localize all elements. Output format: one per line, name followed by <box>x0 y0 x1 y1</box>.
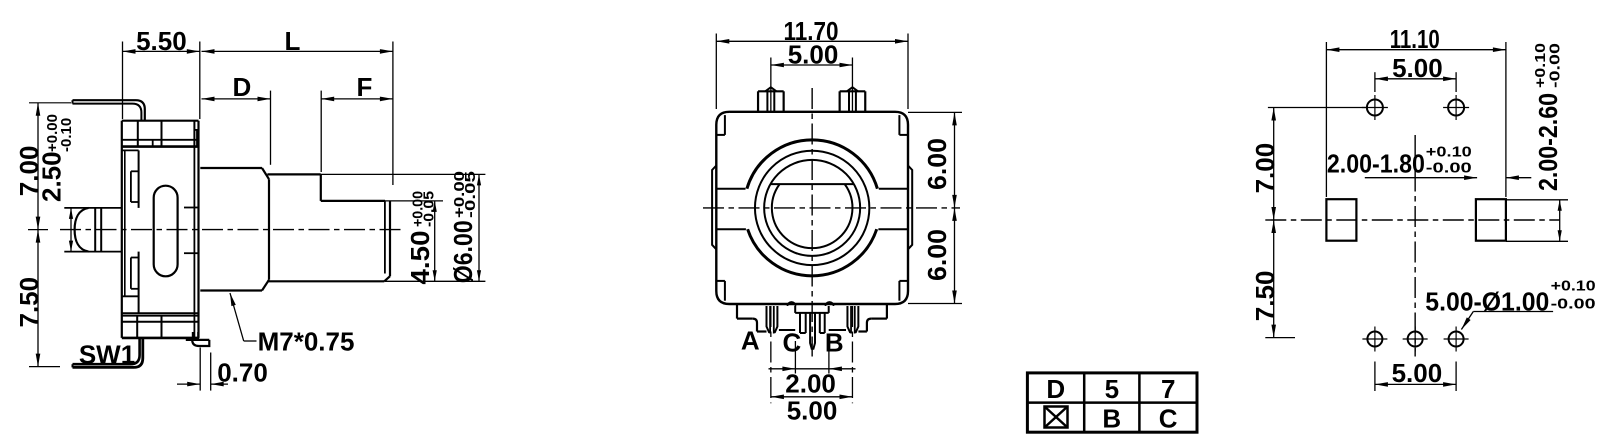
front view skirt connector left <box>779 329 795 331</box>
front view shaft D-flat chord <box>771 183 854 185</box>
footprint bottom hole left <box>1362 327 1387 352</box>
footprint bottom hole right <box>1444 327 1469 352</box>
dimension 0.70 left view <box>177 348 268 391</box>
option table cell C <box>1159 403 1178 433</box>
svg-text:2.00: 2.00 <box>785 369 836 399</box>
svg-text:7.50: 7.50 <box>14 277 44 328</box>
front view vertical centerline <box>811 88 813 357</box>
footprint side pad right <box>1476 199 1506 241</box>
front view top peg left <box>758 87 784 112</box>
option table cell B <box>1102 403 1121 433</box>
dimension 11.70 front view <box>716 16 908 109</box>
svg-text:B: B <box>825 328 844 358</box>
dimension 4.50 with tolerance left view <box>385 191 443 285</box>
dimension 2.00-1.80 with tolerance footprint <box>1327 143 1531 180</box>
svg-text:7: 7 <box>1161 374 1175 404</box>
front view pin B <box>847 306 858 334</box>
svg-text:Ø6.00: Ø6.00 <box>448 220 478 283</box>
svg-text:-0.05: -0.05 <box>462 171 479 218</box>
left view body top cap <box>122 121 199 147</box>
extension line switch pin right <box>828 341 830 374</box>
dimension D left view <box>202 72 271 165</box>
front view switch block <box>795 306 829 333</box>
front view side opening left <box>716 189 746 230</box>
left view body right edge outer <box>197 121 199 338</box>
front view corner tab bottom-left <box>716 281 725 301</box>
svg-text:7.50: 7.50 <box>1250 271 1280 322</box>
left view body bottom cap <box>122 313 199 338</box>
left view body left edge <box>121 121 123 338</box>
front view relief notch right <box>826 302 834 306</box>
label SW1 left view <box>79 340 135 370</box>
front view top peg right <box>840 87 866 112</box>
extension line peg right <box>851 58 853 112</box>
svg-text:4.50: 4.50 <box>405 231 435 285</box>
option table cell 7 <box>1161 374 1175 404</box>
svg-text:5.50: 5.50 <box>136 26 187 56</box>
dimension F left view <box>321 72 393 172</box>
footprint top holes axis line <box>1268 107 1366 109</box>
svg-text:A: A <box>741 326 760 356</box>
front view skirt connector right <box>829 329 846 331</box>
footprint side pad left <box>1326 199 1356 241</box>
svg-text:5.00: 5.00 <box>1392 53 1443 83</box>
left view stadium slot <box>154 186 178 277</box>
svg-text:-0.00: -0.00 <box>1426 160 1472 177</box>
front view side tab left <box>712 166 716 250</box>
extension line peg left <box>770 58 772 112</box>
left view bottom mounting clip SW plate <box>73 338 143 367</box>
front view corner tab top-left <box>716 115 725 135</box>
dimension 7.50 left view <box>14 230 60 367</box>
front view bottom skirt right <box>858 304 887 332</box>
option table cell D <box>1046 374 1065 404</box>
svg-text:5.00: 5.00 <box>788 40 839 70</box>
left view top mounting clip SW plate <box>73 100 145 121</box>
svg-text:D: D <box>233 72 252 102</box>
svg-text:L: L <box>285 26 301 56</box>
dimension 7.00 footprint <box>1250 108 1280 221</box>
svg-text:M7*0.75: M7*0.75 <box>258 327 355 357</box>
svg-text:11.10: 11.10 <box>1390 24 1440 54</box>
label C front view <box>783 328 802 358</box>
option table cell 5 <box>1105 374 1119 404</box>
front view corner tab bottom-right <box>899 281 908 301</box>
svg-text:2.50: 2.50 <box>37 151 67 202</box>
dimension 5.00 top footprint <box>1375 53 1456 92</box>
dimension 7.00 left view <box>14 103 71 230</box>
left view body internal step upper <box>122 150 139 208</box>
extension line switch pin left <box>794 341 796 374</box>
svg-text:B: B <box>1102 403 1121 433</box>
dimension 5.50 left view <box>123 26 200 119</box>
dimension 5.00 bottom front view <box>771 395 853 426</box>
dimension 7.50 footprint <box>1250 220 1295 338</box>
dimension 2.00-2.60 with tolerance footprint <box>1506 43 1568 241</box>
svg-text:7.00: 7.00 <box>1250 143 1280 194</box>
left view shaft <box>267 174 390 281</box>
front view relief notch left <box>788 302 796 306</box>
svg-text:5.00: 5.00 <box>1392 358 1443 388</box>
front view horizontal centerline <box>703 207 960 209</box>
front view outer ring circle <box>747 140 878 276</box>
svg-text:C: C <box>783 328 802 358</box>
label B front view <box>825 328 844 358</box>
label M7*0.75 with leader left view <box>230 293 354 357</box>
front view middle circle <box>755 151 869 265</box>
svg-text:-0.00: -0.00 <box>1551 296 1596 313</box>
svg-text:0.70: 0.70 <box>217 357 268 387</box>
front view inner circle <box>764 160 860 256</box>
left view PCB support lug <box>186 332 210 346</box>
svg-text:5.00: 5.00 <box>787 396 838 426</box>
front view shaft D-cut circle <box>772 184 853 248</box>
dimension 5.00 bottom footprint <box>1375 358 1456 391</box>
dimension 5.00 top front view <box>771 40 853 70</box>
option table <box>1027 373 1197 432</box>
svg-text:5: 5 <box>1105 374 1119 404</box>
front view corner tab top-right <box>899 115 908 135</box>
front view bottom skirt left <box>737 304 767 332</box>
svg-text:+0.10: +0.10 <box>1426 143 1472 160</box>
dimension 11.10 footprint <box>1326 24 1506 197</box>
left view body inner wall left <box>124 150 126 296</box>
svg-text:SW1: SW1 <box>79 340 135 370</box>
footprint top hole right <box>1443 95 1469 120</box>
svg-text:-0.00: -0.00 <box>1547 43 1564 88</box>
left view push plunger SW button <box>64 208 122 252</box>
svg-text:+0.10: +0.10 <box>1551 278 1596 295</box>
dimension 2.50 with tolerance left view <box>37 114 76 252</box>
left view centerline <box>28 229 402 231</box>
left view body right edge inner <box>184 147 199 338</box>
footprint horizontal centerline <box>1265 219 1559 221</box>
label A front view <box>741 326 760 356</box>
front view side tab right <box>908 166 912 250</box>
svg-text:2.00-1.80: 2.00-1.80 <box>1327 149 1425 179</box>
left view threaded bushing M7 <box>200 168 269 291</box>
dimension L left view <box>202 26 393 185</box>
svg-text:-0.05: -0.05 <box>421 191 438 227</box>
svg-text:C: C <box>1159 403 1178 433</box>
dimension diameter 6.00 with tolerance left view <box>321 171 486 283</box>
front view pin A <box>767 306 778 334</box>
footprint top hole left <box>1362 95 1388 120</box>
svg-text:D: D <box>1046 374 1065 404</box>
extension line pin B <box>851 306 853 403</box>
front view body outline <box>716 112 908 304</box>
dimension 2.00 front view <box>769 367 856 399</box>
svg-text:F: F <box>356 72 372 102</box>
svg-text:6.00: 6.00 <box>922 138 952 190</box>
dimension 6.00 upper front view <box>908 112 962 207</box>
extension line pin A <box>770 306 772 403</box>
dimension 6.00 lower front view <box>908 208 962 304</box>
left view body internal step lower <box>122 252 139 314</box>
svg-text:2.00-2.60: 2.00-2.60 <box>1533 93 1563 191</box>
svg-text:-0.10: -0.10 <box>58 118 75 152</box>
svg-text:6.00: 6.00 <box>922 229 952 281</box>
front view side opening right <box>878 189 908 230</box>
option table checked box X <box>1045 407 1068 428</box>
label 5.00-diameter 1.00 with leader footprint <box>1425 278 1595 330</box>
footprint bottom hole middle <box>1403 327 1428 352</box>
front view pin C center <box>810 313 815 349</box>
footprint vertical centerline <box>1414 135 1416 357</box>
